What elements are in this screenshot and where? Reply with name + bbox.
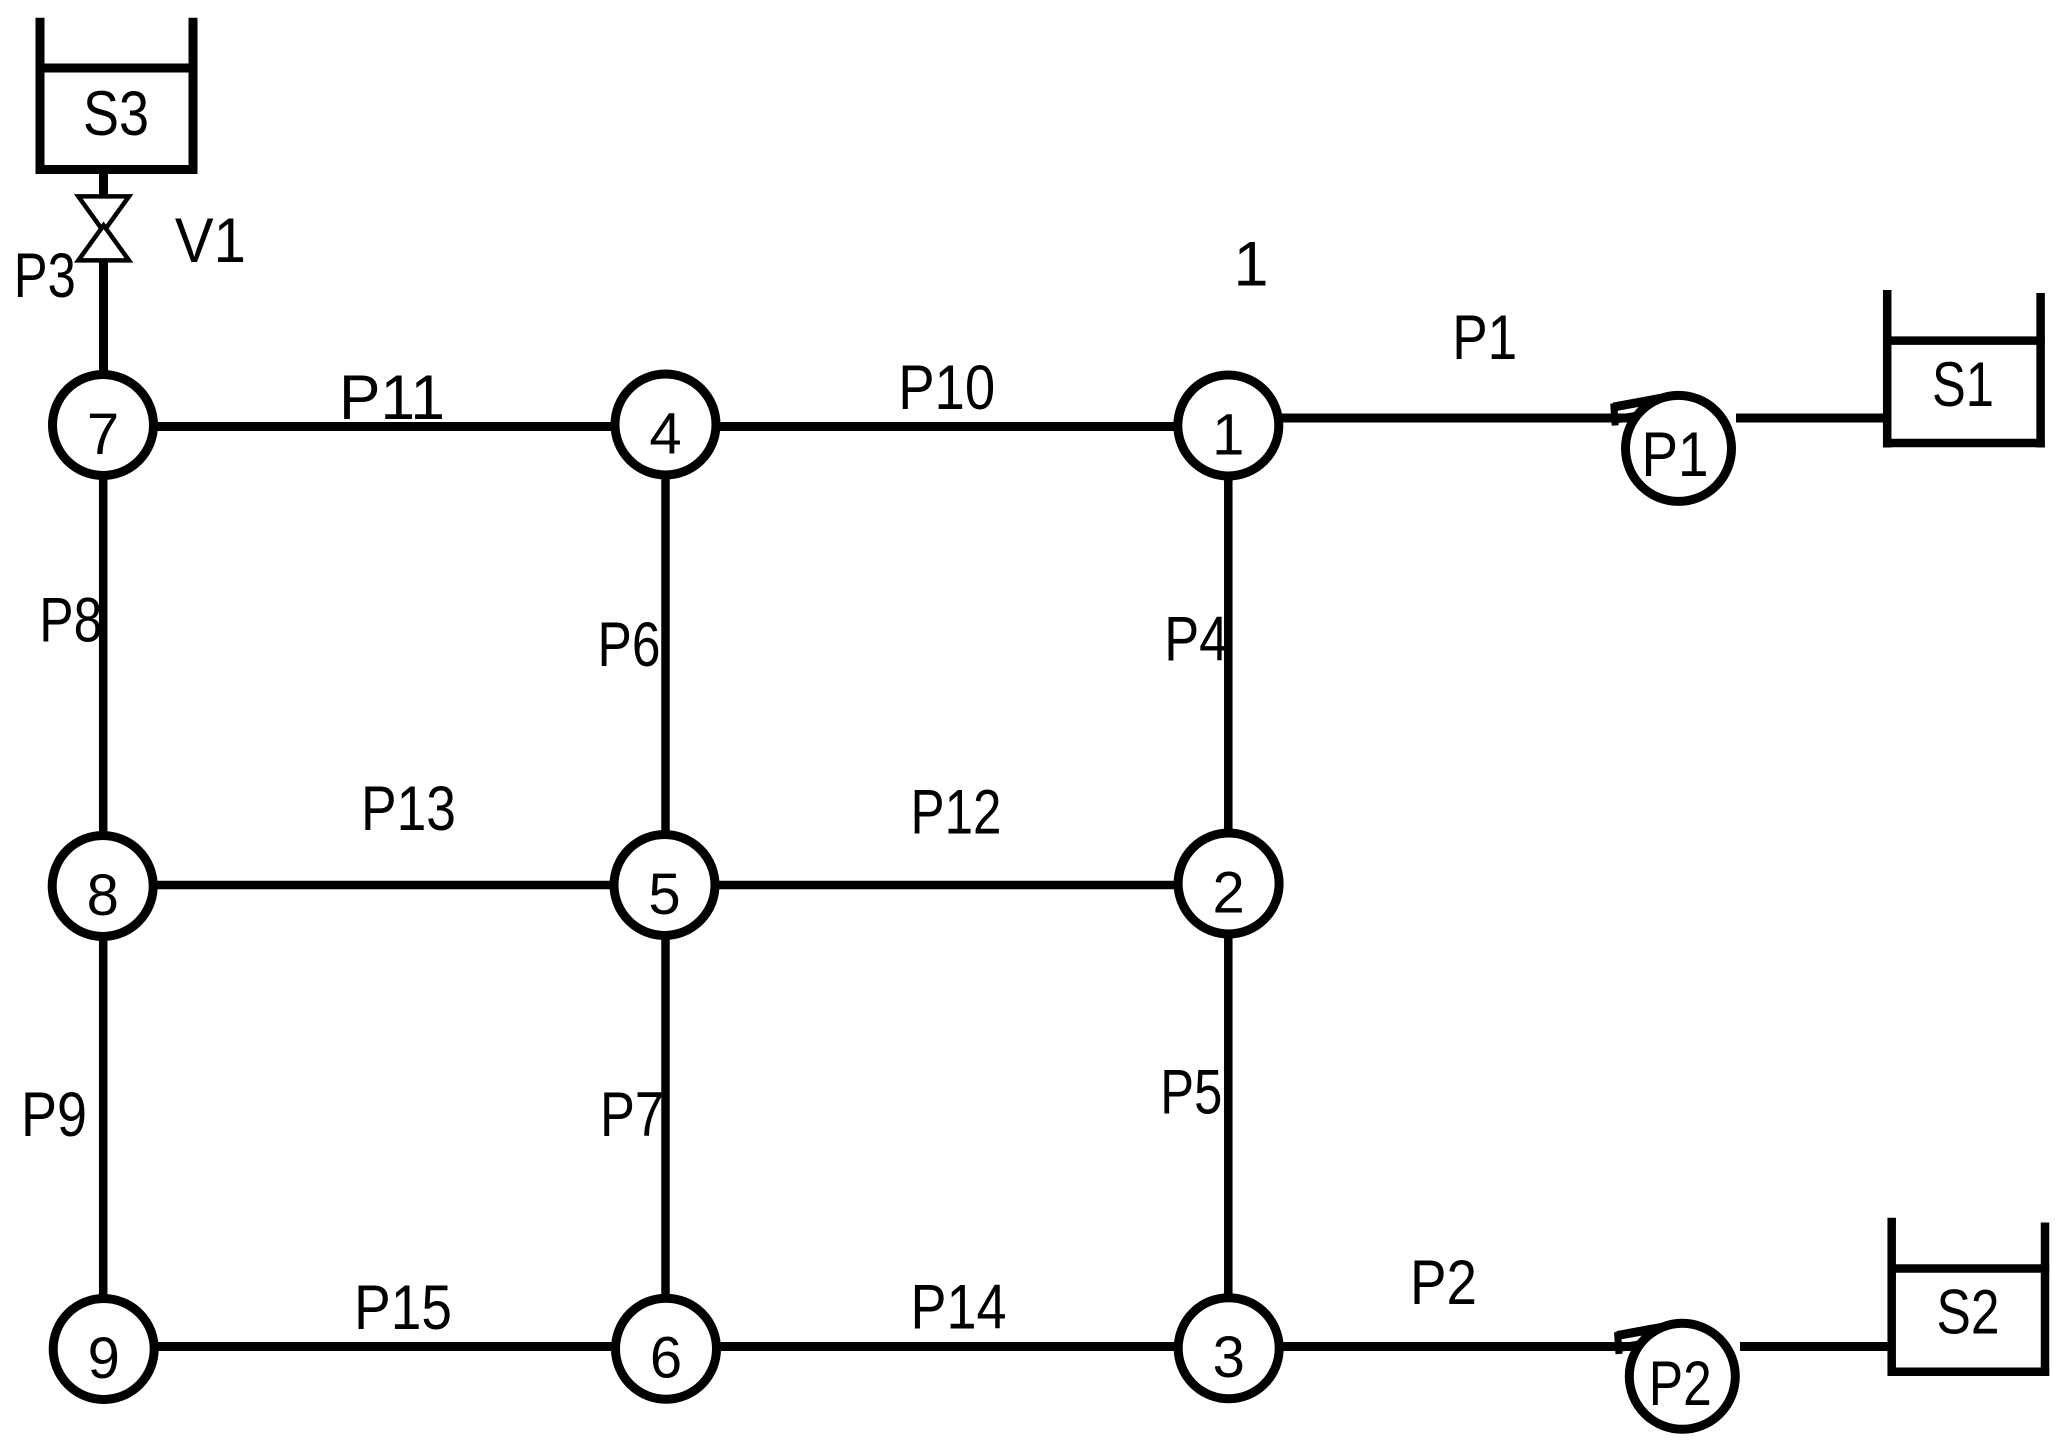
svg-text:P8: P8 [39,586,102,656]
node 6 [616,1298,717,1399]
wire P14 node6-node3 [666,1342,1229,1351]
node 1 [1178,375,1279,476]
svg-text:V1: V1 [175,206,246,276]
wire P3 vertical from tank S3 through valve to node 7 [99,172,108,425]
svg-text:S3: S3 [83,79,149,149]
svg-text:P12: P12 [911,778,1002,848]
node 8 [52,836,153,937]
pump P1 body [1626,395,1732,501]
tank S2 [1888,1218,2050,1376]
node 2 [1178,833,1279,934]
wire P10 node4-node1 [666,422,1229,431]
wire P5 node2-node3 [1224,884,1233,1349]
wire pumpP1-tankS1 [1736,414,1884,423]
wire P15 node9-node6 [103,1342,666,1351]
svg-text:6: 6 [650,1326,682,1391]
valve V1 [78,196,129,260]
wire P12 node5-node2 [666,881,1229,890]
svg-text:P5: P5 [1160,1058,1222,1128]
node 3 [1178,1298,1279,1399]
svg-text:P6: P6 [598,610,661,680]
svg-text:P2: P2 [1410,1248,1477,1318]
node 7 [53,375,154,476]
node 5 [614,835,715,936]
svg-text:P7: P7 [600,1080,664,1150]
svg-text:7: 7 [87,402,119,467]
svg-text:P10: P10 [898,353,995,423]
node 9 [53,1299,154,1400]
wire P4 node1-node2 [1224,425,1233,884]
svg-text:P13: P13 [361,774,456,844]
svg-text:9: 9 [88,1326,120,1391]
svg-text:S1: S1 [1932,350,1994,420]
wire P2 node3-pumpP2 [1228,1342,1649,1351]
pump P2 body [1629,1323,1735,1429]
svg-text:P1: P1 [1452,303,1517,373]
tank S1 [1883,290,2045,448]
wire P8 node7-node8 [99,425,108,886]
wire P13 node8-node5 [103,881,666,890]
svg-text:1: 1 [1212,403,1244,468]
wire P7 node5-node6 [661,885,670,1349]
svg-text:P2: P2 [1649,1349,1712,1419]
svg-text:P14: P14 [911,1273,1007,1343]
svg-text:8: 8 [87,863,119,928]
svg-text:3: 3 [1213,1325,1245,1390]
svg-text:P3: P3 [14,241,76,311]
svg-text:P4: P4 [1164,604,1228,674]
wire P11 node7-node4 [103,422,666,431]
tank S3 [36,18,198,174]
svg-text:P9: P9 [21,1080,87,1150]
wire P1 node1-pumpP1 [1228,414,1645,423]
pump P1 volute [1614,396,1677,426]
pump P2 volute [1617,1324,1680,1354]
wire pumpP2-tankS2 [1740,1342,1888,1351]
node 4 [615,374,716,475]
svg-text:P15: P15 [354,1273,452,1343]
svg-text:1: 1 [1233,230,1268,300]
svg-text:P1: P1 [1642,420,1709,490]
svg-text:P11: P11 [339,363,445,433]
svg-text:2: 2 [1212,861,1244,926]
svg-text:5: 5 [648,862,680,927]
svg-text:4: 4 [649,402,681,467]
wire P9 node8-node9 [99,886,108,1349]
wire P6 node4-node5 [661,425,670,885]
svg-text:S2: S2 [1937,1278,2000,1348]
